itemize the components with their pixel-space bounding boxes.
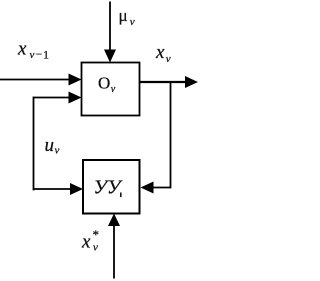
wire feedback branch from x_v down: [170, 81, 172, 188]
svg-text:*: *: [93, 227, 100, 242]
wire u_v lower arm into YY: [33, 188, 71, 190]
wire feedback into YY right side: [152, 187, 171, 189]
wire mu_v vertical into O_v: [109, 2, 111, 52]
wire x*_v input into YY bottom: [113, 225, 115, 279]
svg-text:−: −: [36, 47, 43, 61]
svg-text:v: v: [55, 144, 60, 156]
block O_v (observer/object box): [82, 63, 140, 116]
svg-text:v: v: [166, 53, 171, 65]
svg-text:u: u: [45, 135, 55, 156]
wire u_v vertical segment: [33, 97, 35, 191]
svg-text:μ: μ: [119, 6, 128, 25]
svg-text:v: v: [111, 84, 116, 95]
svg-text:x: x: [17, 39, 27, 60]
wire x_{v-1} input into O_v: [0, 79, 70, 81]
svg-text:O: O: [98, 74, 110, 93]
wire u_v upper arm into O_v: [33, 97, 70, 99]
wire x_v output of O_v: [140, 81, 188, 83]
svg-text:v: v: [30, 49, 35, 61]
svg-text:v: v: [93, 242, 98, 254]
svg-text:УУ: УУ: [94, 177, 123, 199]
svg-text:x: x: [155, 42, 165, 63]
svg-text:1: 1: [43, 48, 49, 62]
block YY (control unit box): [83, 160, 140, 214]
svg-text:x: x: [81, 232, 91, 253]
svg-text:v: v: [130, 16, 135, 28]
